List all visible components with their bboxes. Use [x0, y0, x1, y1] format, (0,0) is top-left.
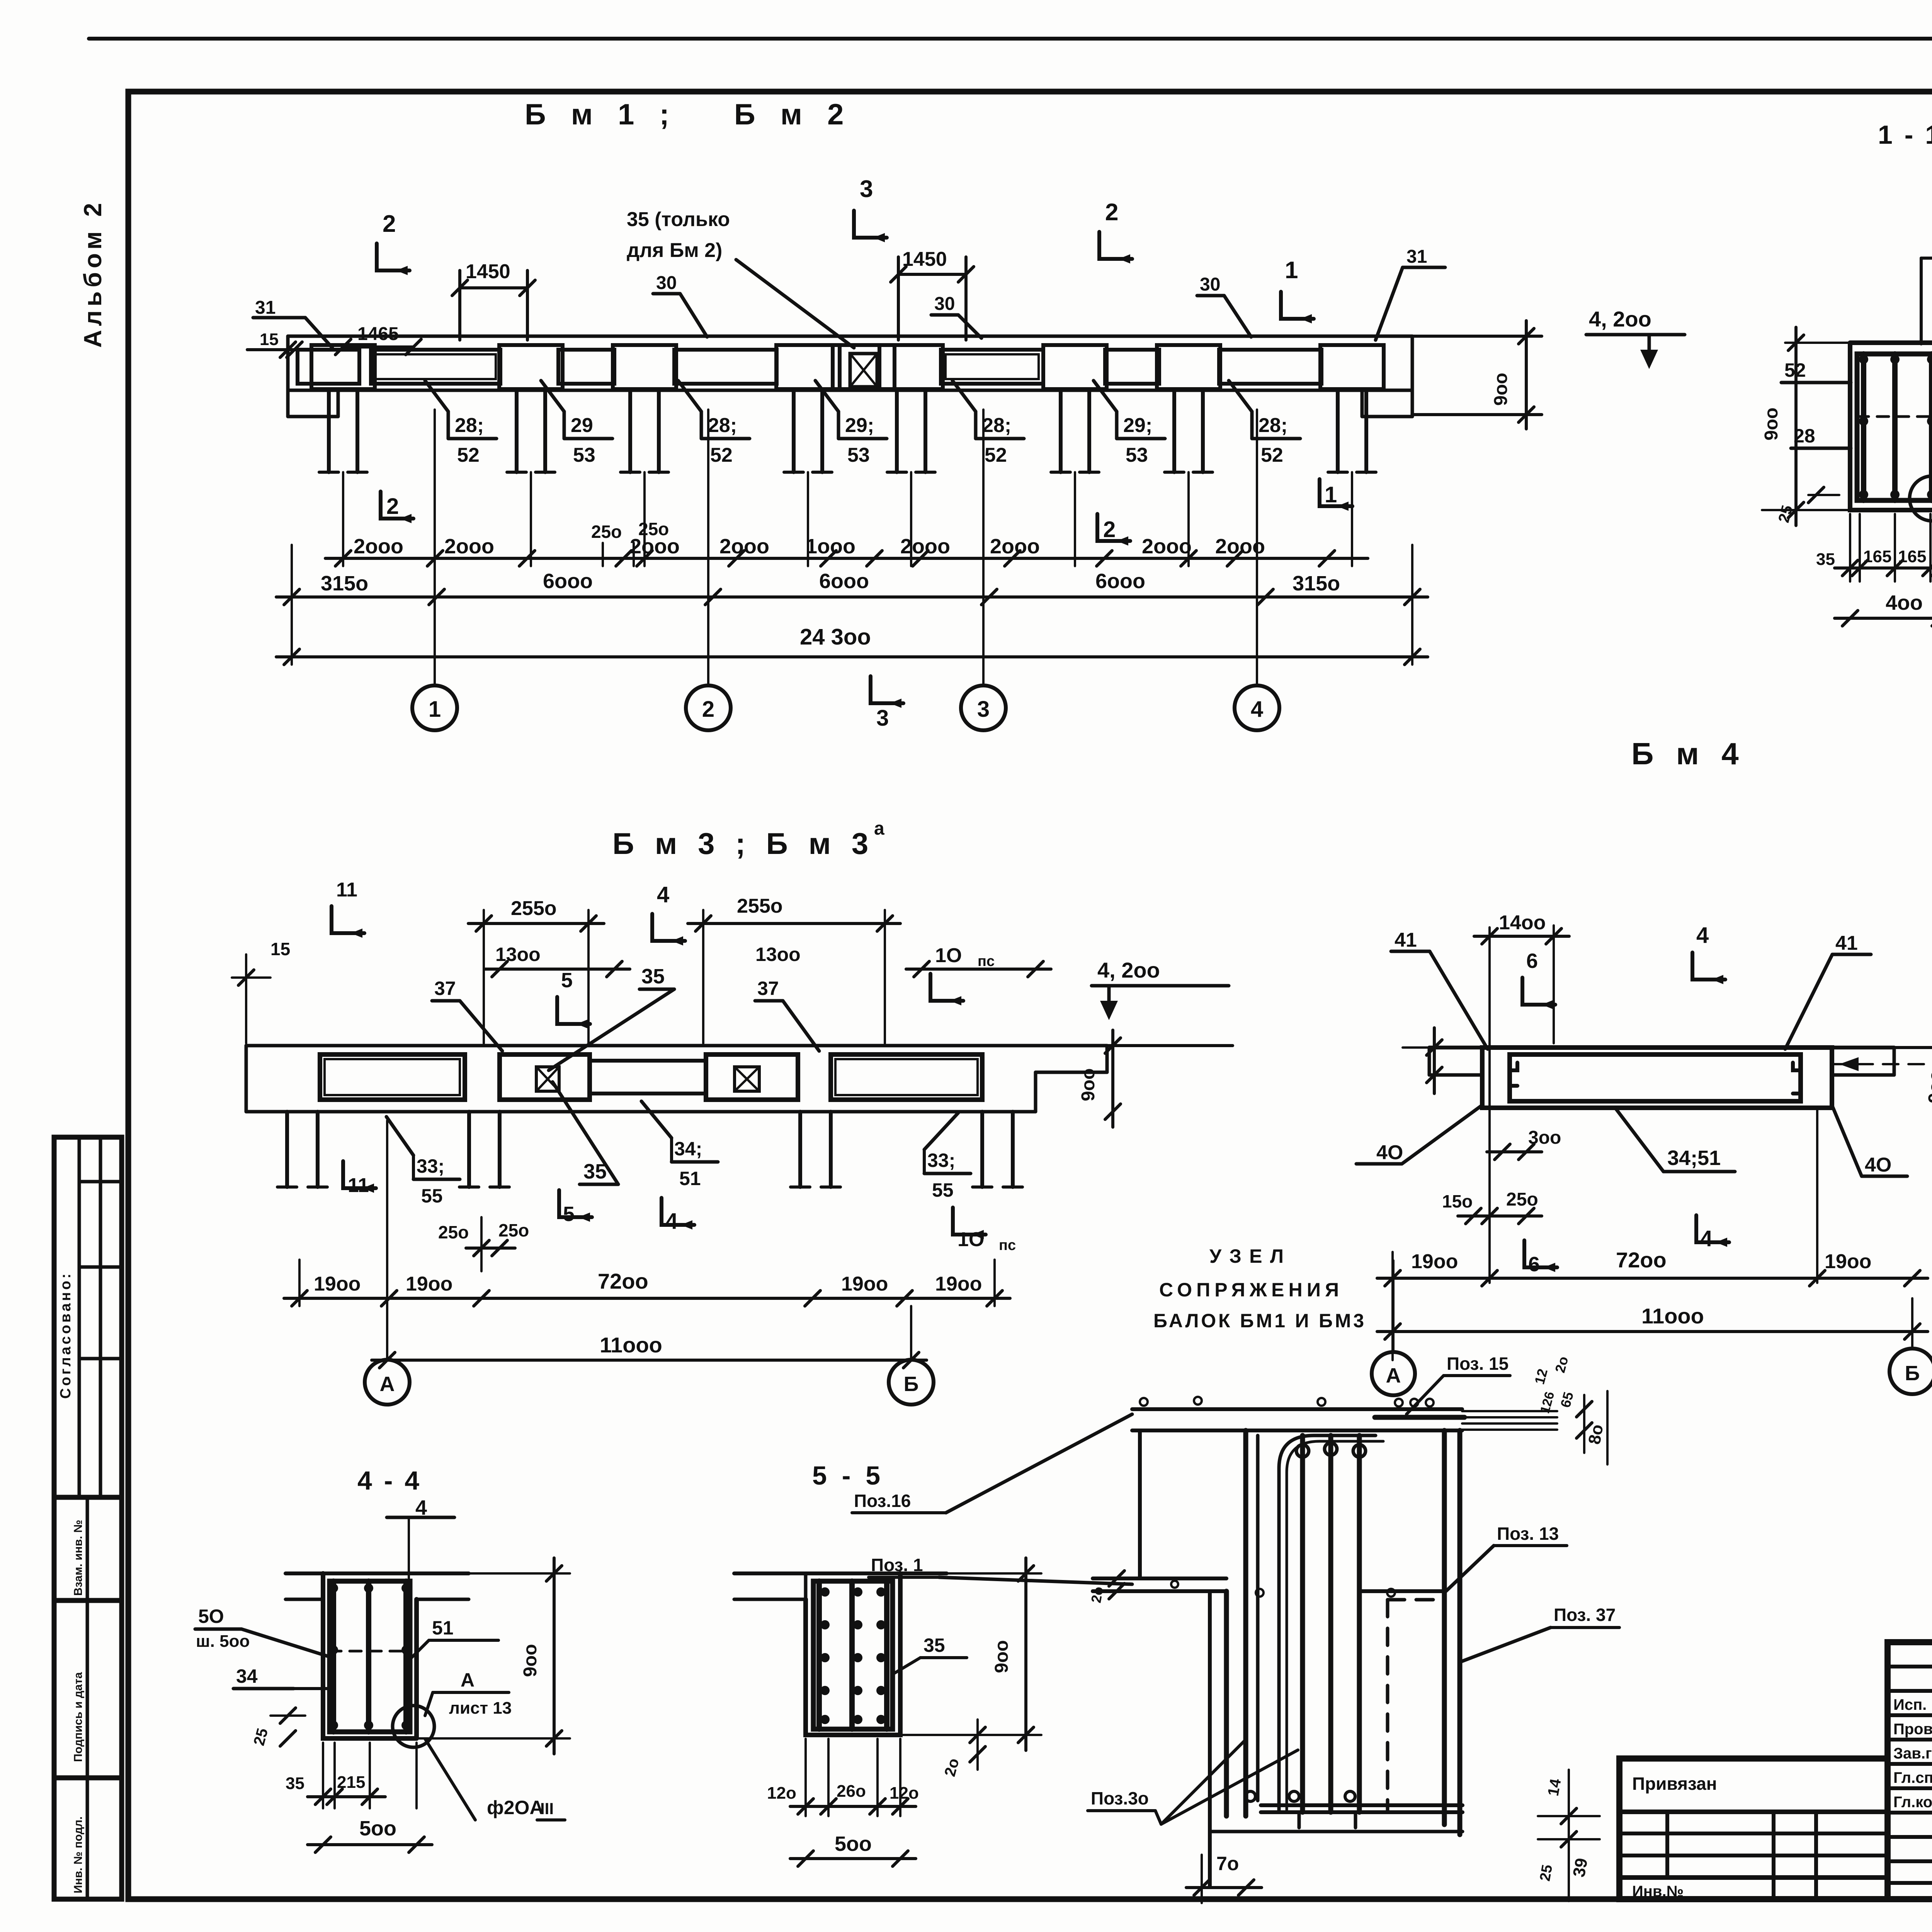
- svg-text:19oo: 19oo: [1411, 1250, 1458, 1273]
- svg-text:лист 13: лист 13: [449, 1699, 512, 1718]
- svg-text:6: 6: [1528, 1253, 1540, 1276]
- svg-text:4, 2oo: 4, 2oo: [1097, 958, 1160, 982]
- svg-text:25o: 25o: [438, 1222, 469, 1242]
- svg-text:III: III: [540, 1799, 554, 1818]
- svg-text:Б: Б: [904, 1372, 919, 1396]
- svg-text:3: 3: [977, 697, 990, 722]
- svg-text:1465: 1465: [357, 324, 399, 344]
- svg-text:Б: Б: [1905, 1362, 1920, 1385]
- svg-text:15: 15: [260, 330, 279, 349]
- svg-text:Б м 3 ; Б м 3: Б м 3 ; Б м 3: [612, 827, 874, 861]
- svg-text:2ooo: 2ooo: [444, 535, 494, 558]
- svg-text:5oo: 5oo: [359, 1817, 396, 1840]
- svg-text:2ooo: 2ooo: [719, 535, 769, 558]
- svg-text:Инв.№: Инв.№: [1632, 1883, 1684, 1900]
- svg-text:12o: 12o: [767, 1784, 796, 1803]
- svg-text:52: 52: [985, 444, 1007, 466]
- svg-text:72oo: 72oo: [1616, 1248, 1667, 1272]
- svg-text:11: 11: [348, 1174, 369, 1197]
- svg-text:39: 39: [1570, 1857, 1592, 1879]
- svg-text:4 - 4: 4 - 4: [357, 1466, 422, 1495]
- svg-text:14: 14: [1545, 1777, 1565, 1797]
- svg-text:33;: 33;: [927, 1150, 955, 1171]
- svg-text:55: 55: [421, 1185, 443, 1207]
- svg-text:11ooo: 11ooo: [600, 1333, 662, 1357]
- svg-text:28;: 28;: [708, 414, 737, 437]
- svg-text:2: 2: [383, 211, 396, 237]
- svg-text:Привязан: Привязан: [1632, 1774, 1717, 1794]
- svg-text:7o: 7o: [1216, 1853, 1239, 1874]
- svg-text:Взам. инв. №: Взам. инв. №: [72, 1520, 85, 1596]
- svg-text:19oo: 19oo: [406, 1273, 452, 1295]
- svg-text:37: 37: [434, 978, 456, 999]
- svg-text:2: 2: [1105, 199, 1118, 226]
- svg-text:9oo: 9oo: [992, 1640, 1012, 1673]
- svg-text:4: 4: [1251, 697, 1263, 722]
- svg-text:165: 165: [1898, 547, 1926, 566]
- svg-text:1450: 1450: [902, 248, 947, 270]
- svg-text:4oo: 4oo: [1886, 591, 1923, 614]
- svg-text:5: 5: [561, 969, 573, 992]
- svg-text:Поз. 15: Поз. 15: [1447, 1354, 1509, 1374]
- svg-text:5O: 5O: [198, 1605, 224, 1627]
- svg-text:255o: 255o: [737, 895, 783, 917]
- svg-text:35: 35: [1816, 550, 1835, 569]
- svg-text:4: 4: [657, 882, 669, 907]
- svg-text:9oo: 9oo: [1761, 408, 1782, 440]
- svg-text:51: 51: [679, 1168, 701, 1189]
- svg-text:Пров.: Пров.: [1893, 1721, 1932, 1738]
- svg-text:28;: 28;: [982, 414, 1011, 437]
- svg-text:37: 37: [757, 978, 779, 999]
- svg-text:1: 1: [1285, 257, 1298, 284]
- svg-text:34;: 34;: [674, 1138, 702, 1160]
- svg-text:Поз.3o: Поз.3o: [1091, 1788, 1149, 1808]
- svg-text:25o: 25o: [638, 519, 669, 539]
- svg-text:Подпись и дата: Подпись и дата: [72, 1672, 85, 1762]
- svg-text:53: 53: [847, 444, 870, 466]
- svg-text:11ooo: 11ooo: [1641, 1304, 1704, 1328]
- svg-text:Исп.: Исп.: [1893, 1696, 1927, 1713]
- svg-text:9oo: 9oo: [1925, 1070, 1932, 1103]
- svg-text:41: 41: [1395, 929, 1417, 951]
- svg-text:пс: пс: [978, 953, 995, 969]
- svg-text:29;: 29;: [845, 414, 874, 437]
- svg-text:4: 4: [1696, 923, 1709, 948]
- svg-text:Зав.гр: Зав.гр: [1893, 1745, 1932, 1762]
- svg-text:30: 30: [656, 273, 677, 293]
- svg-text:19oo: 19oo: [935, 1273, 982, 1295]
- svg-text:29: 29: [571, 414, 593, 437]
- svg-text:13oo: 13oo: [495, 944, 541, 965]
- svg-text:13oo: 13oo: [755, 944, 801, 965]
- svg-text:ш. 5oo: ш. 5oo: [196, 1632, 250, 1651]
- svg-text:Инв. № подл.: Инв. № подл.: [72, 1816, 85, 1893]
- svg-text:9oo: 9oo: [1078, 1068, 1099, 1101]
- svg-text:55: 55: [932, 1179, 954, 1201]
- svg-text:34: 34: [236, 1665, 258, 1687]
- svg-text:6ooo: 6ooo: [819, 570, 869, 593]
- svg-text:Поз.16: Поз.16: [854, 1491, 911, 1511]
- svg-text:31: 31: [255, 298, 276, 318]
- svg-text:33;: 33;: [417, 1155, 444, 1177]
- svg-text:6: 6: [1526, 949, 1538, 973]
- svg-text:255o: 255o: [511, 897, 557, 920]
- svg-text:25o: 25o: [591, 522, 622, 542]
- svg-text:Гл.кон: Гл.кон: [1893, 1794, 1932, 1811]
- svg-text:72oo: 72oo: [598, 1269, 648, 1293]
- svg-text:1450: 1450: [466, 260, 510, 283]
- svg-text:25: 25: [1537, 1864, 1556, 1883]
- svg-text:4O: 4O: [1376, 1141, 1403, 1164]
- svg-text:Альбом 2: Альбом 2: [79, 199, 107, 348]
- svg-text:2: 2: [702, 697, 714, 722]
- svg-text:9oo: 9oo: [520, 1644, 541, 1677]
- svg-text:1: 1: [429, 697, 441, 722]
- svg-text:28;: 28;: [455, 414, 484, 437]
- svg-text:Б м 1 ;: Б м 1 ;: [525, 98, 678, 131]
- svg-text:4, 2oo: 4, 2oo: [1589, 307, 1651, 331]
- svg-text:5oo: 5oo: [835, 1832, 872, 1855]
- svg-text:52: 52: [1261, 444, 1283, 466]
- svg-text:Поз. 13: Поз. 13: [1497, 1524, 1559, 1544]
- svg-text:5 - 5: 5 - 5: [812, 1461, 884, 1490]
- svg-text:5: 5: [563, 1202, 575, 1226]
- svg-text:Гл.сп.: Гл.сп.: [1893, 1769, 1932, 1786]
- svg-text:а: а: [874, 818, 884, 839]
- svg-text:52: 52: [457, 444, 480, 466]
- svg-text:2ooo: 2ooo: [990, 535, 1040, 558]
- svg-text:БАЛОК БМ1 И БМ3: БАЛОК БМ1 И БМ3: [1153, 1310, 1364, 1332]
- svg-text:215: 215: [337, 1773, 365, 1792]
- svg-text:2o: 2o: [1088, 1585, 1107, 1604]
- svg-text:4: 4: [665, 1209, 678, 1234]
- svg-text:для Бм 2): для Бм 2): [627, 239, 722, 262]
- svg-text:А: А: [461, 1669, 474, 1691]
- svg-text:31: 31: [1406, 247, 1427, 267]
- svg-text:2ooo: 2ooo: [900, 535, 950, 558]
- svg-text:1ooo: 1ooo: [806, 535, 855, 558]
- svg-text:1 - 1: 1 - 1: [1878, 120, 1932, 150]
- svg-text:2: 2: [1103, 517, 1116, 542]
- svg-text:Согласовано:: Согласовано:: [58, 1271, 74, 1399]
- svg-text:52: 52: [710, 444, 733, 466]
- svg-text:34;51: 34;51: [1667, 1146, 1721, 1170]
- svg-text:2ooo: 2ooo: [354, 535, 403, 558]
- svg-text:53: 53: [1126, 444, 1148, 466]
- svg-text:30: 30: [1200, 274, 1220, 295]
- svg-text:25o: 25o: [498, 1220, 529, 1240]
- svg-text:15o: 15o: [1442, 1191, 1473, 1211]
- svg-text:51: 51: [432, 1617, 454, 1639]
- svg-text:Поз. 37: Поз. 37: [1554, 1605, 1616, 1625]
- svg-text:165: 165: [1863, 547, 1891, 566]
- svg-text:19oo: 19oo: [314, 1273, 361, 1295]
- svg-text:А: А: [1386, 1364, 1401, 1387]
- svg-text:6ooo: 6ooo: [543, 570, 593, 593]
- svg-text:11: 11: [336, 879, 357, 901]
- svg-text:Б м 4: Б м 4: [1631, 736, 1746, 771]
- svg-text:15: 15: [270, 939, 290, 959]
- svg-text:25o: 25o: [1506, 1189, 1538, 1210]
- svg-text:пс: пс: [999, 1237, 1016, 1253]
- svg-text:41: 41: [1835, 932, 1858, 954]
- svg-text:9oo: 9oo: [1491, 373, 1511, 406]
- svg-text:19oo: 19oo: [841, 1273, 888, 1295]
- svg-text:28;: 28;: [1259, 414, 1287, 437]
- svg-text:4: 4: [1700, 1226, 1713, 1251]
- svg-text:19oo: 19oo: [1825, 1250, 1871, 1273]
- svg-text:35 (только: 35 (только: [627, 208, 730, 231]
- svg-text:А: А: [380, 1372, 395, 1396]
- svg-text:315o: 315o: [1293, 572, 1340, 595]
- svg-text:35: 35: [641, 965, 665, 988]
- svg-text:1O: 1O: [935, 944, 962, 967]
- svg-text:ф2OА: ф2OА: [487, 1797, 544, 1818]
- svg-text:24 3oo: 24 3oo: [800, 624, 871, 650]
- svg-text:2: 2: [386, 494, 399, 519]
- svg-text:29;: 29;: [1123, 414, 1152, 437]
- svg-text:3: 3: [860, 176, 873, 202]
- svg-text:30: 30: [934, 294, 955, 314]
- svg-text:3: 3: [876, 706, 889, 731]
- svg-text:6ooo: 6ooo: [1095, 570, 1145, 593]
- svg-text:4O: 4O: [1865, 1154, 1891, 1176]
- svg-text:Б м 2: Б м 2: [734, 98, 852, 131]
- svg-text:315o: 315o: [321, 572, 368, 595]
- svg-text:1: 1: [1325, 482, 1337, 507]
- svg-text:2ooo: 2ooo: [1142, 535, 1192, 558]
- svg-text:53: 53: [573, 444, 595, 466]
- svg-text:35: 35: [923, 1634, 945, 1656]
- svg-text:26o: 26o: [837, 1782, 866, 1801]
- svg-text:14oo: 14oo: [1499, 912, 1546, 934]
- svg-text:35: 35: [286, 1774, 304, 1793]
- svg-text:12o: 12o: [889, 1784, 919, 1803]
